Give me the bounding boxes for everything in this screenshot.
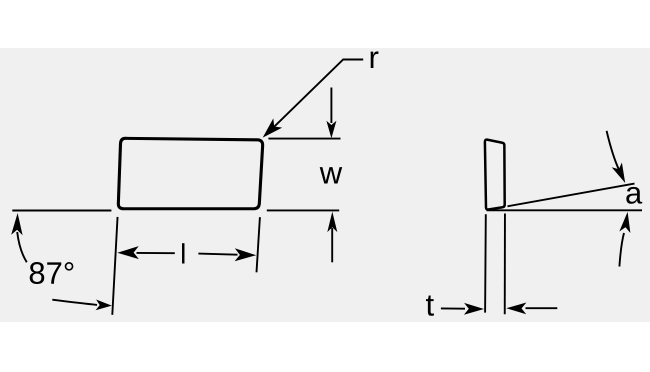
- baseline middle segment: [267, 209, 339, 211]
- label r: [371, 51, 379, 68]
- l right extension line: [257, 217, 260, 272]
- a upper arrowhead: [612, 163, 626, 184]
- w top arrowhead: [326, 121, 336, 139]
- label 87deg: [30, 262, 74, 284]
- 87deg lower arc shaft: [52, 300, 97, 305]
- w bottom arrow shaft: [331, 228, 333, 262]
- a lower arrowhead: [619, 212, 630, 233]
- 87deg upper arrowhead: [11, 213, 22, 235]
- w top arrow shaft: [330, 88, 332, 124]
- a upper arrow shaft: [607, 131, 620, 171]
- r leader arrowhead: [263, 118, 283, 137]
- t left arrowhead: [464, 303, 484, 315]
- l right arrowhead: [235, 248, 257, 261]
- baseline right segment: [487, 209, 642, 211]
- label w: [320, 167, 343, 183]
- w top extension line: [268, 138, 340, 140]
- a lower arrow shaft: [619, 233, 624, 267]
- t right arrowhead: [506, 303, 526, 315]
- w bottom arrowhead: [327, 212, 337, 233]
- gray drawing band: [0, 48, 650, 322]
- r leader line: [268, 60, 364, 134]
- l left arrowhead: [117, 246, 139, 259]
- l dimension line right part: [198, 254, 237, 255]
- insert side view outline: [485, 140, 505, 210]
- label l: [182, 243, 184, 263]
- 87deg upper arc shaft: [17, 232, 27, 262]
- label a: [626, 187, 642, 204]
- baseline left segment: [12, 210, 111, 212]
- t right extension line: [504, 214, 506, 315]
- 87deg lower arrowhead: [96, 300, 112, 311]
- t right arrow line: [526, 307, 558, 309]
- l dimension line left part: [137, 252, 175, 254]
- label t: [426, 296, 434, 316]
- insert front view outline: [118, 138, 262, 208]
- t left extension line: [484, 214, 487, 312]
- angle a slanted line: [508, 184, 635, 207]
- t left arrow line: [441, 307, 465, 309]
- l left extension line: [112, 217, 117, 315]
